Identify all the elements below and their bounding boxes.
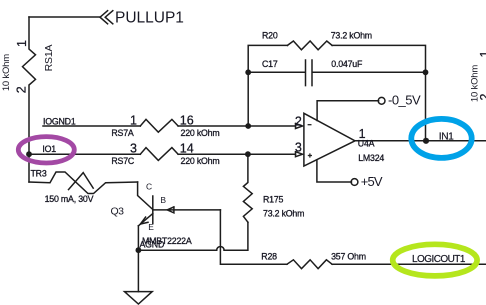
svg-text:RS7C: RS7C [111, 156, 135, 166]
svg-text:Q3: Q3 [111, 205, 125, 217]
svg-text:RS1A: RS1A [43, 44, 55, 71]
svg-text:R175: R175 [263, 195, 284, 205]
svg-text:2: 2 [478, 93, 486, 100]
svg-text:LOGICOUT1: LOGICOUT1 [412, 254, 466, 265]
svg-text:220 kOhm: 220 kOhm [181, 156, 220, 166]
svg-text:C17: C17 [262, 59, 278, 69]
svg-text:1: 1 [130, 114, 137, 128]
svg-text:IOGND1: IOGND1 [43, 116, 76, 126]
svg-text:10 kOhm: 10 kOhm [1, 54, 12, 91]
svg-text:-0_5V: -0_5V [388, 93, 421, 108]
svg-text:IN1: IN1 [439, 132, 454, 143]
svg-text:AGND: AGND [140, 240, 165, 250]
svg-text:1: 1 [478, 50, 486, 57]
svg-text:+5V: +5V [361, 174, 383, 189]
svg-text:C: C [146, 182, 152, 192]
svg-text:1: 1 [359, 127, 366, 141]
svg-text:150 mA, 30V: 150 mA, 30V [45, 194, 94, 204]
svg-text:TR3: TR3 [31, 169, 47, 179]
svg-text:2: 2 [295, 115, 302, 129]
svg-text:RS7A: RS7A [111, 128, 134, 138]
svg-text:1: 1 [15, 40, 29, 47]
svg-text:PULLUP1: PULLUP1 [115, 10, 184, 27]
svg-text:357 Ohm: 357 Ohm [331, 252, 366, 262]
svg-text:16: 16 [180, 114, 194, 128]
svg-text:R20: R20 [262, 31, 278, 41]
svg-text:IO1: IO1 [42, 144, 56, 154]
svg-text:73.2 kOhm: 73.2 kOhm [331, 31, 372, 41]
svg-text:3: 3 [130, 142, 137, 156]
svg-text:LM324: LM324 [358, 153, 384, 163]
svg-text:73.2 kOhm: 73.2 kOhm [263, 208, 304, 218]
svg-text:14: 14 [180, 142, 194, 156]
svg-text:R28: R28 [261, 252, 277, 262]
svg-text:0.047uF: 0.047uF [331, 59, 363, 69]
svg-text:B: B [160, 195, 166, 205]
svg-text:220 kOhm: 220 kOhm [181, 128, 220, 138]
svg-text:2: 2 [14, 86, 28, 93]
svg-text:3: 3 [295, 141, 302, 155]
svg-text:E: E [148, 222, 154, 232]
